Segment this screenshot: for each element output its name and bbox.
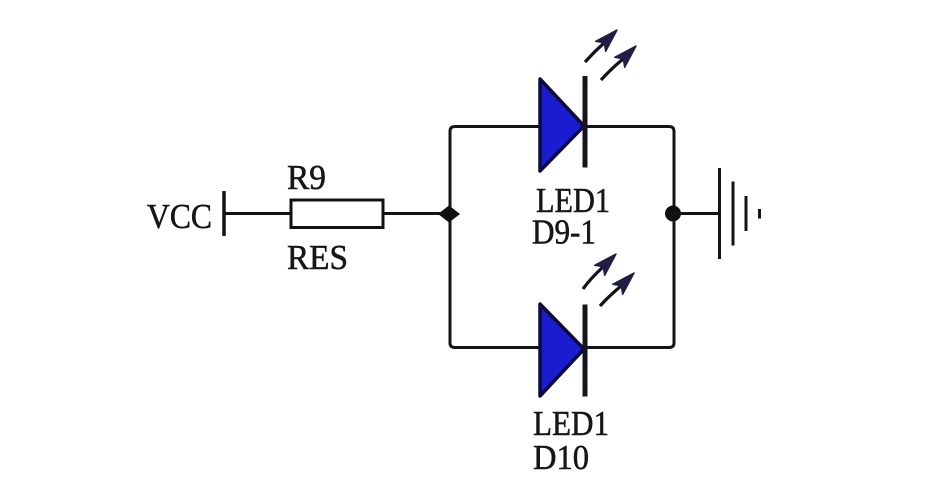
ground bar 2 — [732, 182, 735, 246]
wire VCC terminal to resistor R9 — [224, 212, 291, 215]
ground bar 4 — [758, 209, 761, 219]
wire node B to ground — [673, 212, 719, 215]
wire bottom branch right segment and right rail lower — [585, 214, 674, 348]
ground bar 1 — [718, 168, 721, 259]
node B junction dot — [665, 206, 681, 222]
svg-text:R9: R9 — [287, 158, 326, 197]
svg-text:RES: RES — [287, 238, 348, 277]
ground bar 3 — [745, 196, 748, 231]
svg-text:VCC: VCC — [147, 197, 212, 236]
LED D9-1 light arrow 2 — [601, 41, 641, 80]
LED D10 triangle (anode) — [540, 304, 584, 396]
node A junction dot — [438, 206, 460, 223]
wire left rail and top branch left segment — [450, 127, 585, 214]
wire resistor R9 to node A — [383, 212, 450, 215]
LED D10 cathode bar — [583, 305, 588, 397]
resistor R9 body — [291, 200, 383, 228]
LED D10 light arrow 1 — [583, 249, 621, 289]
wire top branch right segment and right rail upper — [585, 127, 674, 214]
svg-text:D10: D10 — [533, 438, 589, 477]
LED D10 light arrow 2 — [600, 268, 639, 306]
wire left rail lower and bottom branch left segment — [450, 214, 585, 348]
VCC terminal bar — [222, 191, 226, 236]
LED D9-1 cathode bar — [583, 76, 588, 168]
LED D9-1 triangle (anode) — [540, 79, 584, 171]
LED D9-1 light arrow 1 — [585, 25, 622, 62]
svg-text:D9-1: D9-1 — [532, 213, 596, 252]
